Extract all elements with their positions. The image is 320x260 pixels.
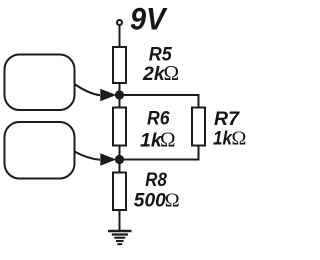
svg-text:1k: 1k — [213, 128, 233, 150]
svg-text:R6: R6 — [147, 107, 170, 129]
svg-text:R7: R7 — [214, 108, 240, 130]
svg-text:Ω: Ω — [164, 61, 180, 85]
svg-text:Ω: Ω — [165, 189, 180, 211]
svg-text:Ω: Ω — [160, 128, 176, 152]
svg-text:Ω: Ω — [232, 128, 247, 150]
svg-text:R8: R8 — [145, 169, 167, 191]
svg-text:2k: 2k — [142, 63, 166, 85]
svg-text:9V: 9V — [130, 1, 168, 37]
svg-text:500: 500 — [134, 189, 166, 211]
